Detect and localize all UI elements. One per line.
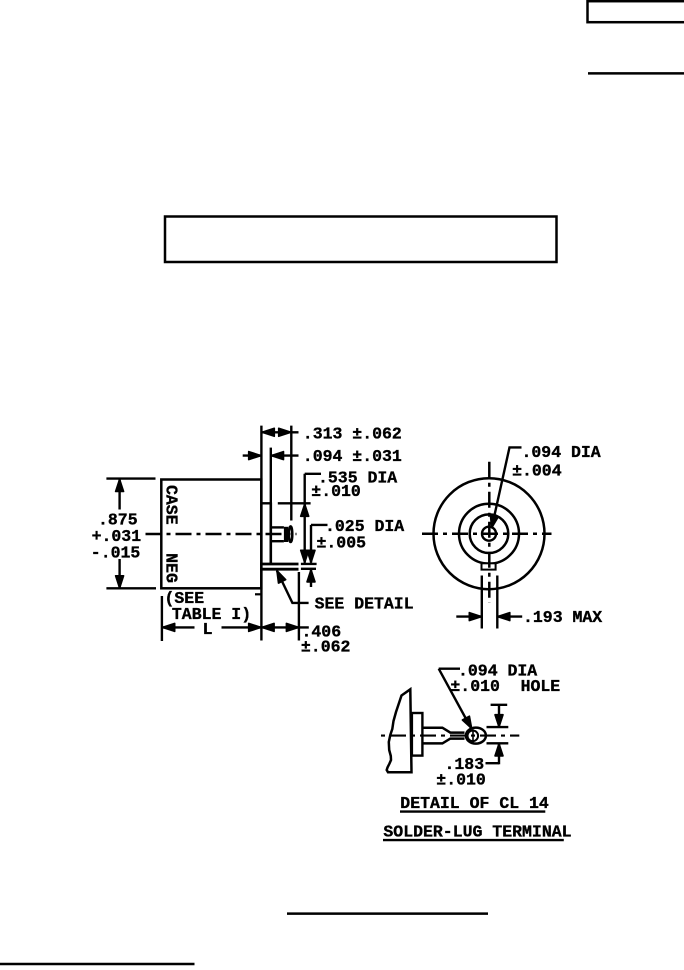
capacitor body outline — [161, 480, 261, 589]
dim .193 arrow pointing right — [469, 613, 481, 621]
see detail leader arrowhead — [277, 571, 286, 584]
svg-text:CASE: CASE — [162, 485, 181, 525]
dim .025 leader vertical — [310, 525, 312, 563]
lug hole — [468, 731, 479, 742]
dim .875 dimension line upper segment — [118, 479, 120, 509]
extension line lug tip — [298, 572, 300, 641]
lug extension top right — [301, 563, 317, 565]
dim .183 arrow down — [495, 715, 503, 727]
dim .183 arrow up — [495, 744, 503, 756]
dim .406 arrow right — [286, 623, 298, 631]
detail leader horizontal — [439, 668, 460, 670]
dim .094 dimension line right — [271, 454, 299, 456]
extension line flange face upper — [270, 448, 272, 503]
dim .025 leader horizontal — [311, 524, 328, 526]
dim .535 arrow down — [301, 550, 309, 562]
dim .183 extension bottom — [487, 742, 509, 744]
dim .183 lower line — [498, 744, 500, 765]
front horizontal centerline — [422, 532, 552, 535]
flange face line — [269, 503, 272, 565]
figure title box — [165, 217, 557, 263]
terminal bushing bottom line — [272, 540, 284, 542]
dim .193 dimension line right — [497, 615, 522, 617]
front view inner circle — [470, 514, 509, 553]
dim .875 arrow up — [116, 479, 124, 491]
header rule top right — [588, 72, 684, 75]
terminal end disc — [289, 526, 292, 542]
dim .875 dimension line lower segment — [118, 559, 120, 588]
dim .025 arrow down — [307, 550, 315, 562]
lug extension bottom right — [301, 568, 316, 570]
extension line terminal tip — [290, 426, 292, 521]
solder lug bar bottom edge — [260, 568, 299, 571]
footnote rule center — [287, 912, 488, 915]
detail title underline2 — [383, 839, 564, 841]
see detail leader line — [277, 571, 309, 603]
extension line L left — [161, 596, 163, 641]
center line side view — [146, 533, 297, 536]
front view flange circle — [459, 504, 519, 564]
lug bottom profile — [422, 739, 464, 744]
extension line .535 top — [278, 502, 311, 504]
footnote rule bottom left — [0, 963, 195, 966]
dim .025 lower tail — [310, 570, 312, 587]
svg-text:SOLDER-LUG TERMINAL: SOLDER-LUG TERMINAL — [383, 823, 571, 842]
svg-text:L: L — [203, 620, 213, 639]
flange top edge — [261, 502, 272, 504]
svg-text:.313 ±.062: .313 ±.062 — [303, 425, 402, 444]
svg-text:±.010: ±.010 — [311, 482, 361, 501]
svg-text:-.015: -.015 — [91, 543, 141, 562]
dim .193 arrow pointing left — [498, 613, 510, 621]
svg-text:±.010: ±.010 — [436, 770, 486, 789]
dim .535 dimension line vertical — [304, 474, 306, 563]
dim .193 extension line left — [481, 576, 483, 629]
lug head — [466, 728, 486, 744]
dim .313 dimension line — [262, 431, 299, 433]
front view outer circle — [434, 478, 545, 589]
dim .875 bottom extension line — [106, 587, 156, 589]
detail leader diagonal — [439, 669, 471, 728]
hole center mark — [472, 729, 474, 742]
dim .313 arrow left — [262, 428, 274, 436]
front leader arrowhead — [490, 515, 498, 528]
svg-text:NEG: NEG — [162, 553, 181, 583]
dim .406 arrow left — [262, 623, 274, 631]
detail title underline1 — [400, 810, 545, 812]
svg-text:±.005: ±.005 — [317, 534, 367, 553]
dim .094 dimension line left — [243, 454, 262, 456]
dim .183 upper line — [498, 705, 500, 727]
broken flange piece outline — [387, 689, 412, 772]
lug top profile — [422, 728, 464, 733]
dim .535 arrow up — [301, 504, 309, 516]
dim .313 arrow right — [279, 428, 291, 436]
dim .094 arrow pointing left — [271, 452, 283, 460]
svg-text:.094 ±.031: .094 ±.031 — [303, 447, 402, 466]
front vertical centerline — [488, 462, 491, 603]
svg-text:±.010: ±.010 — [450, 677, 500, 696]
dim .183 top tick — [491, 704, 508, 706]
dim L dimension line left part — [162, 626, 195, 628]
dim .193 dimension line left — [456, 615, 482, 617]
front view lug notch — [482, 563, 496, 569]
flange edge rectangle — [412, 713, 423, 756]
terminal seal solid block — [284, 527, 288, 542]
front leader line — [492, 447, 522, 527]
solder lug bar top edge — [260, 563, 299, 566]
case crimp tick at body lower right — [255, 593, 261, 595]
svg-text:.193 MAX: .193 MAX — [523, 608, 602, 627]
svg-text:±.004: ±.004 — [512, 461, 562, 480]
dim L/.406 dimension line right part — [222, 626, 309, 628]
dim L arrow left — [162, 623, 174, 631]
dim .193 extension line right — [496, 576, 498, 629]
dim L arrow right — [249, 623, 261, 631]
dim .183 extension top — [487, 726, 509, 728]
dim .025 arrow up below lug — [307, 570, 315, 582]
svg-text:SEE DETAIL: SEE DETAIL — [315, 594, 414, 613]
detail centerline — [381, 735, 519, 737]
extension line body right edge (above and below body) — [260, 426, 262, 641]
dim .875 top extension line — [106, 477, 155, 479]
svg-text:DETAIL OF CL 14: DETAIL OF CL 14 — [400, 794, 549, 813]
svg-text:±.062: ±.062 — [301, 637, 351, 656]
terminal bushing top line — [272, 526, 284, 528]
detail leader arrowhead — [462, 716, 471, 728]
dim .094 arrow pointing right — [249, 452, 261, 460]
front view terminal circle — [482, 527, 496, 541]
svg-text:.094 DIA: .094 DIA — [522, 443, 601, 462]
dim .183 text dash — [486, 762, 500, 764]
page number box top right — [588, 1, 684, 22]
svg-text:HOLE: HOLE — [521, 677, 561, 696]
dim .875 arrow down — [116, 576, 124, 588]
dim .535 leader horizontal — [305, 473, 321, 475]
